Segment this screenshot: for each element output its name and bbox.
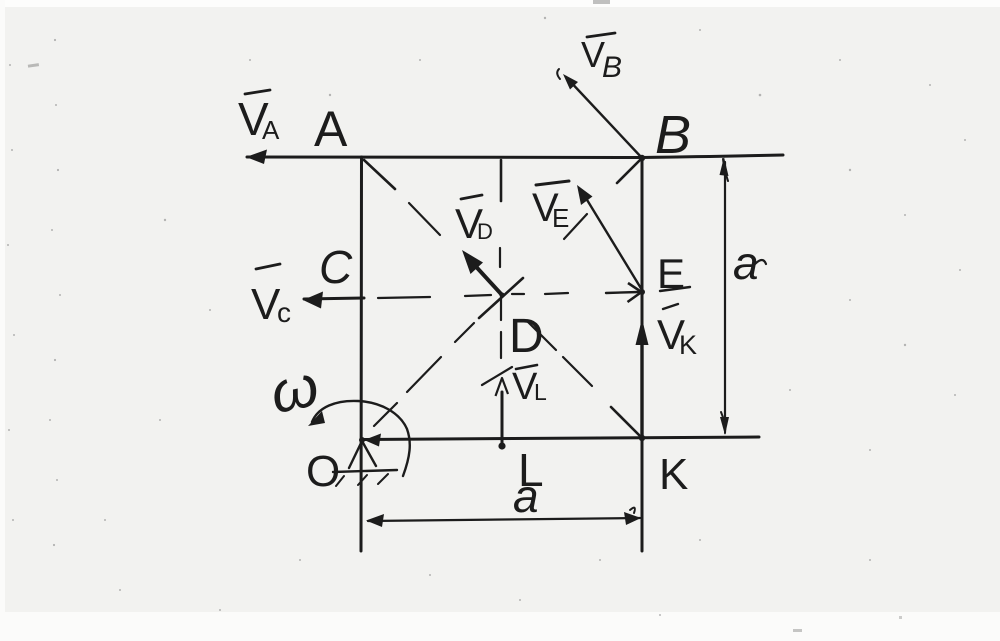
- label VB: [581, 33, 622, 84]
- vector VL head (open): [496, 378, 509, 396]
- side AO (left of square, extended below): [360, 157, 364, 551]
- vector VK shaft: [640, 326, 643, 437]
- node dot L: [498, 442, 505, 449]
- node dot D center: [499, 292, 504, 297]
- vector VC head: [303, 292, 323, 309]
- vector VE head: [577, 185, 593, 205]
- vector VC shaft: [304, 298, 364, 299]
- vector VL slash tick: [482, 367, 512, 385]
- svg-text:B: B: [602, 51, 622, 84]
- vector VA arrow (shaft along top line, head at left): [246, 150, 267, 165]
- svg-text:L: L: [534, 379, 547, 405]
- label VL: [512, 365, 547, 408]
- vector VD shaft: [469, 259, 502, 295]
- svg-text:K: K: [659, 450, 688, 499]
- arrow into E on centerline: [606, 292, 639, 293]
- svg-text:E: E: [552, 203, 569, 233]
- svg-text:c: c: [277, 297, 291, 328]
- svg-text:A: A: [314, 101, 348, 157]
- corner dot B: [639, 155, 645, 161]
- pivot hatching: [336, 474, 388, 486]
- pivot ground line: [333, 470, 397, 472]
- centerline horizontal dashed CE: [378, 293, 568, 298]
- dimension line a right: [724, 162, 726, 430]
- svg-text:B: B: [655, 105, 691, 165]
- side BK (right of square, extended below): [641, 158, 644, 552]
- small arrowhead at O on bottom line: [364, 434, 381, 447]
- svg-text:L: L: [518, 444, 544, 496]
- vector VL shaft: [501, 392, 504, 446]
- svg-text:K: K: [679, 330, 697, 360]
- diagonal AK dashed: [364, 160, 641, 437]
- dimension line a bottom: [368, 518, 640, 521]
- pivot legs at O: [349, 441, 376, 468]
- side OK (bottom of square, extended right): [362, 437, 759, 440]
- diagonal OB dashed: [374, 160, 640, 426]
- label VC: [251, 264, 291, 329]
- svg-text:D: D: [477, 219, 493, 244]
- vector VK head: [636, 319, 649, 345]
- corner dot K: [639, 435, 645, 441]
- side AB (top of square, extended both ways): [247, 155, 783, 158]
- label VA: [238, 90, 280, 145]
- svg-text:C: C: [319, 241, 353, 293]
- label VD: [455, 195, 493, 247]
- vector VD head: [462, 250, 483, 274]
- svg-text:O: O: [306, 447, 340, 496]
- vector VB head: [563, 74, 578, 90]
- corner dot O: [359, 437, 365, 443]
- label E: [657, 250, 690, 297]
- svg-text:D: D: [509, 310, 544, 363]
- svg-text:A: A: [262, 115, 280, 145]
- label VE: [532, 181, 569, 233]
- omega arc arrowhead: [308, 411, 325, 426]
- label VK: [657, 304, 697, 360]
- vector VB shaft: [566, 77, 642, 158]
- centerline vertical dashed: [500, 160, 501, 358]
- omega rotation arc at O: [312, 401, 410, 476]
- node dot E: [639, 289, 645, 295]
- vector VE shaft: [581, 190, 642, 290]
